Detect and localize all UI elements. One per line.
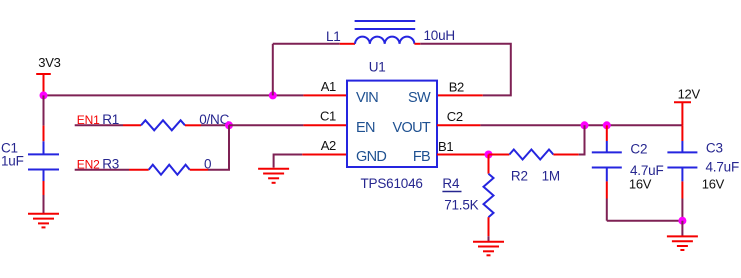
svg-text:EN: EN (356, 120, 375, 136)
resistor R1 (123, 120, 201, 130)
designator R4 underline (442, 191, 461, 193)
junction node EN (225, 121, 233, 129)
wire R4 to ground (488, 236, 490, 241)
svg-text:A1: A1 (321, 79, 336, 94)
pin B2 SW (437, 94, 483, 96)
svg-text:VOUT: VOUT (393, 120, 431, 136)
svg-text:VIN: VIN (356, 90, 378, 106)
svg-text:1M: 1M (542, 169, 560, 184)
wire junction to ground (681, 221, 683, 237)
resistor R4 (484, 155, 494, 237)
svg-text:B1: B1 (438, 139, 453, 154)
svg-text:C3: C3 (706, 141, 723, 156)
wire riser to inductor (272, 44, 274, 96)
svg-text:3V3: 3V3 (38, 55, 60, 70)
svg-text:FB: FB (413, 149, 430, 165)
svg-text:16V: 16V (629, 177, 652, 192)
svg-text:1uF: 1uF (1, 153, 24, 168)
capacitor C3 (667, 125, 697, 220)
junction node VIN-C1 (40, 91, 48, 99)
junction node VOUT-R2 (581, 121, 589, 129)
svg-text:U1: U1 (369, 60, 386, 75)
wire R1 to junction (201, 124, 229, 126)
power symbol 12V (674, 102, 691, 125)
wire R2 to VOUT riser (579, 125, 585, 154)
junction node FB (485, 151, 493, 159)
junction node VIN-L1 (269, 91, 277, 99)
svg-text:71.5K: 71.5K (444, 198, 478, 213)
pin B1 FB (437, 154, 489, 156)
ground symbol R4 (473, 242, 504, 256)
pin L1 right (414, 43, 420, 45)
power symbol 3V3 (36, 74, 51, 95)
inductor core bar 2 (355, 28, 416, 30)
wire C2 to C3 bottom (607, 220, 683, 222)
svg-text:L1: L1 (326, 29, 341, 44)
svg-text:4.7uF: 4.7uF (706, 160, 740, 175)
resistor R3 (129, 165, 208, 175)
svg-text:A2: A2 (321, 138, 336, 153)
svg-text:TPS61046: TPS61046 (361, 176, 423, 191)
svg-text:16V: 16V (702, 176, 725, 191)
wire junction to EN pin (229, 124, 303, 126)
pin C2 VOUT (437, 124, 480, 126)
junction node VOUT-C2 (603, 121, 611, 129)
wire A2 to ground (274, 155, 303, 168)
wire R3 to EN riser (208, 125, 229, 169)
junction node output ground (678, 217, 686, 225)
capacitor C1 (28, 95, 59, 213)
svg-text:C1: C1 (320, 109, 336, 124)
op-amp U1 TPS61046 box (347, 81, 437, 167)
resistor R2 (489, 150, 579, 160)
wire top to L1 left (273, 43, 340, 45)
ground symbol output (667, 236, 698, 250)
capacitor C2 (592, 125, 622, 220)
inductor core bar 1 (355, 20, 416, 22)
wire EN1 stub (75, 124, 123, 126)
ground symbol A2 (258, 169, 289, 183)
svg-text:C2: C2 (447, 109, 463, 124)
ground symbol C1 (28, 214, 59, 228)
svg-text:12V: 12V (678, 87, 701, 102)
svg-text:R1: R1 (102, 112, 119, 127)
svg-text:R4: R4 (442, 176, 460, 191)
wire EN2 stub (75, 169, 129, 171)
pin L1 left (340, 43, 355, 45)
svg-text:C2: C2 (630, 141, 647, 156)
wire VOUT rail (480, 124, 682, 126)
pin A1 VIN (303, 94, 347, 96)
pin A2 GND (302, 154, 347, 156)
svg-text:R2: R2 (511, 169, 528, 184)
svg-text:10uH: 10uH (424, 28, 455, 43)
svg-text:SW: SW (408, 90, 431, 106)
svg-text:GND: GND (356, 149, 386, 165)
inductor L1 (355, 37, 414, 44)
pin C1 EN (303, 124, 347, 126)
svg-text:B2: B2 (449, 79, 464, 94)
svg-text:R3: R3 (102, 157, 119, 172)
wire 3V3/A1 rail (44, 94, 304, 96)
wire L1 to B2 corner (420, 44, 511, 96)
